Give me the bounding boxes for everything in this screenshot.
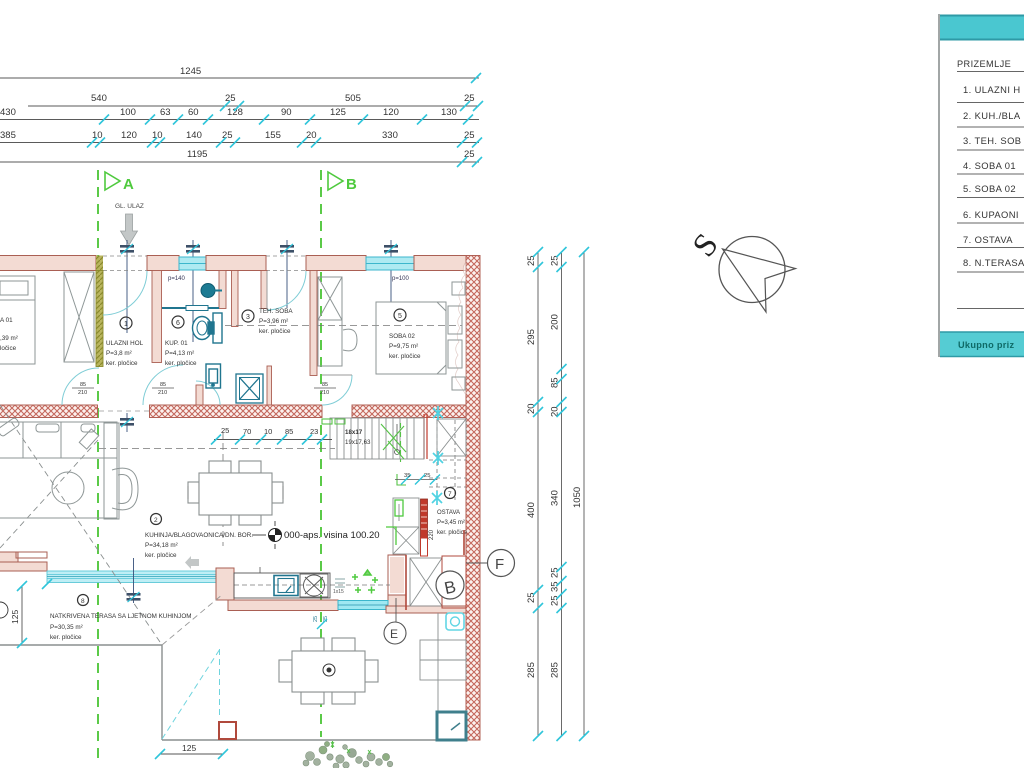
legend table left border (938, 14, 940, 357)
desk chair (112, 468, 138, 510)
shower tray edge (162, 307, 219, 309)
svg-text:330: 330 (382, 130, 398, 141)
entrance door arc (103, 271, 147, 315)
dim labels row1 (0, 66, 475, 160)
svg-text:210: 210 (158, 390, 167, 396)
svg-text:90: 90 (281, 107, 292, 118)
soba01 text fragments (0, 317, 18, 352)
legend title PRIZEMLJE (957, 59, 1024, 309)
red walls around ostava area (406, 530, 466, 610)
svg-text:5: 5 (398, 313, 402, 320)
teh soba top door arc (267, 271, 306, 310)
wardrobe soba01 with X (64, 272, 94, 362)
svg-text:p=100: p=100 (392, 276, 410, 282)
svg-text:85: 85 (160, 382, 166, 388)
svg-text:10: 10 (152, 130, 163, 141)
svg-text:125: 125 (182, 743, 196, 753)
hol/kup wall (152, 271, 162, 363)
svg-text:ker. pločice: ker. pločice (50, 634, 82, 641)
svg-text:P=3,45 m²: P=3,45 m² (437, 520, 465, 526)
living room rug outline (0, 422, 117, 518)
teh soba right wall upper (261, 271, 267, 309)
armchair rotated (79, 429, 98, 449)
dim line 1195-25 (0, 161, 479, 163)
svg-text:295: 295 (526, 329, 537, 345)
soba02 left wall (310, 271, 317, 376)
washbasin (201, 284, 215, 298)
GL. ULAZ label + arrow (115, 203, 144, 245)
kitchen south window (338, 601, 388, 610)
svg-text:P=9,75 m²: P=9,75 m² (389, 343, 418, 350)
compass circle (719, 237, 785, 303)
svg-text:5. SOBA 02: 5. SOBA 02 (963, 183, 1016, 194)
svg-text:7. OSTAVA: 7. OSTAVA (963, 234, 1013, 245)
terrace table (279, 638, 378, 704)
svg-text:ULAZNI HOL: ULAZNI HOL (106, 340, 144, 347)
soba01 top wall (0, 256, 96, 271)
svg-text:8. N.TERASA: 8. N.TERASA (963, 257, 1024, 268)
svg-text:PRIZEMLJE: PRIZEMLJE (957, 59, 1011, 69)
stair side red wall (424, 414, 427, 459)
desk along A line (104, 423, 119, 519)
svg-text:25: 25 (225, 93, 236, 104)
kup lower wall sliver (196, 385, 203, 406)
shower / machine box with X (236, 374, 263, 403)
dim line 1245 (0, 77, 479, 79)
svg-text:20: 20 (306, 130, 317, 141)
gray arrow left near glazing (185, 556, 199, 569)
svg-text:10: 10 (264, 427, 272, 436)
svg-text:70: 70 (243, 427, 251, 436)
sink (274, 576, 298, 596)
corner wall piece at x216 going down to kitchen line (216, 568, 234, 600)
teh soba left wall (232, 271, 239, 327)
svg-text:25: 25 (323, 616, 329, 622)
svg-text:63: 63 (160, 107, 171, 118)
washing machine (206, 364, 221, 388)
svg-text:140: 140 (186, 130, 202, 141)
circle E + leader (395, 598, 397, 622)
svg-text:F: F (495, 556, 504, 573)
svg-text:19x17,63: 19x17,63 (345, 439, 371, 446)
svg-text:505: 505 (345, 93, 361, 104)
stove (300, 574, 328, 597)
dim line 385..25 (0, 142, 479, 144)
svg-text:1. ULAZNI H: 1. ULAZNI H (963, 84, 1021, 95)
svg-text:ker. pločice: ker. pločice (145, 552, 177, 559)
svg-text:285: 285 (526, 662, 537, 678)
svg-text:Ukupno priz: Ukupno priz (958, 340, 1014, 350)
kitchen counter dashed axis (234, 584, 390, 586)
svg-text:10: 10 (92, 130, 103, 141)
wall piece (306, 256, 366, 271)
svg-text:ker. pločice: ker. pločice (389, 353, 421, 360)
kup right wall upper (219, 271, 226, 309)
svg-text:KUHINJA/BLAGOVAONICA/DN. BOR.: KUHINJA/BLAGOVAONICA/DN. BOR. (145, 532, 253, 539)
svg-text:1: 1 (124, 321, 128, 328)
room circle 1 (120, 317, 132, 329)
svg-text:000-aps. visina 100.20: 000-aps. visina 100.20 (284, 530, 380, 541)
svg-text:P=30,35 m²: P=30,35 m² (50, 624, 83, 631)
terrace roof dashed lines (162, 594, 223, 645)
teal box bottom right (bbq) (437, 712, 466, 740)
dim 35/25 (395, 479, 437, 481)
svg-text:ker. pločice: ker. pločice (165, 360, 197, 367)
svg-text:GL. ULAZ: GL. ULAZ (115, 203, 144, 210)
tag below entrance inside plan (120, 413, 134, 432)
svg-text:340: 340 (550, 490, 561, 506)
svg-text:385: 385 (0, 130, 16, 141)
round coffee table (52, 472, 84, 504)
boiler symbol cyan (446, 613, 464, 630)
circle F + leader (466, 562, 487, 564)
chimney dark red (421, 499, 428, 538)
sofa along top of living room (0, 417, 117, 458)
soba02 door arc (322, 375, 352, 405)
green plant marks on counter (352, 570, 378, 594)
dim line 430..130 (0, 119, 479, 121)
soba01 bottom door arc (62, 368, 99, 405)
svg-text:100: 100 (120, 107, 136, 118)
svg-text:23: 23 (310, 427, 318, 436)
svg-text:6: 6 (176, 320, 180, 327)
left 125 dim (21, 586, 23, 643)
wardrobe + desk left wall (318, 277, 357, 366)
window SOBA02 p=100 (366, 257, 414, 270)
kitchen south wall (228, 595, 406, 611)
hol-kup top wall piece (147, 256, 179, 271)
svg-text:A 01: A 01 (0, 317, 13, 324)
cyan ticks top dims (87, 73, 483, 167)
svg-text:120: 120 (121, 130, 137, 141)
bottom 125 dim (160, 753, 223, 755)
teh soba right wall lower (267, 366, 272, 405)
kitchen dim line 25-70-10-85-23 (214, 439, 332, 441)
red column on terrace (219, 722, 236, 739)
svg-text:SOBA 02: SOBA 02 (389, 333, 415, 340)
summer kitchen room counters (420, 613, 466, 712)
svg-text:1195: 1195 (187, 149, 207, 160)
section line A (98, 170, 134, 762)
legend header cyan band (940, 16, 1024, 40)
dashed axes in rooms (225, 325, 310, 327)
svg-text:3: 3 (246, 314, 250, 321)
terrace glazing band (47, 571, 219, 583)
legend footer cyan band Ukupno (940, 332, 1024, 357)
svg-text:2. KUH./BLA: 2. KUH./BLA (963, 110, 1021, 121)
svg-text:2: 2 (154, 517, 158, 524)
svg-text:125: 125 (330, 107, 346, 118)
living room roof dashed diagonals (0, 440, 98, 548)
bed soba01 (0, 276, 35, 364)
svg-text:3. TEH. SOB: 3. TEH. SOB (963, 135, 1021, 146)
svg-text:128: 128 (227, 107, 243, 118)
ostava closet with X (410, 558, 442, 606)
kitchen/ostava divider wall vertical (388, 555, 406, 595)
green marks on stairs (322, 419, 406, 485)
benchmark symbol + label (252, 521, 282, 549)
svg-text:1x15: 1x15 (333, 589, 344, 595)
svg-text:P=3,8 m²: P=3,8 m² (106, 350, 132, 357)
kup bottom door arc (196, 381, 220, 405)
svg-text:400: 400 (526, 502, 537, 518)
dim line 540-25-505-25 (28, 105, 479, 107)
window KUP p=140 (179, 257, 206, 270)
section line B (321, 170, 357, 737)
svg-text:1050: 1050 (572, 487, 583, 508)
85/210 labels (78, 382, 329, 396)
svg-text:85: 85 (80, 382, 86, 388)
table axis dashed vertical (222, 432, 224, 546)
svg-text:E: E (390, 627, 398, 641)
svg-text:200: 200 (550, 314, 561, 330)
svg-text:A: A (123, 176, 134, 193)
dashed kitchen axis marks (259, 567, 261, 573)
svg-text:ker. pločice: ker. pločice (106, 360, 138, 367)
svg-text:430: 430 (0, 107, 16, 118)
svg-text:60: 60 (188, 107, 199, 118)
svg-text:130: 130 (441, 107, 457, 118)
closet X top right corridor (437, 419, 466, 456)
svg-text:ker. pločice: ker. pločice (259, 328, 291, 335)
wall piece kup-teh (206, 256, 266, 271)
svg-text:p=140: p=140 (168, 276, 186, 282)
OSTAVA bottom wall (386, 606, 466, 613)
svg-text:85: 85 (285, 427, 293, 436)
svg-text:35: 35 (404, 473, 410, 479)
svg-text:,39 m²: ,39 m² (0, 335, 18, 342)
west wall chunk at living room left (0, 552, 47, 571)
svg-text:OSTAVA: OSTAVA (437, 510, 460, 516)
green accents near unit (386, 500, 403, 545)
bed soba02 (376, 282, 465, 390)
svg-text:540: 540 (91, 93, 107, 104)
teh.soba door opening dashes (266, 256, 306, 271)
svg-text:210: 210 (320, 390, 329, 396)
stair direction (395, 450, 400, 455)
svg-text:25: 25 (313, 616, 319, 622)
svg-text:85: 85 (322, 382, 328, 388)
olive wall strip (soba01/hol divider crossing) (96, 256, 103, 271)
wall piece to corner (414, 256, 466, 271)
svg-text:KUP. 01: KUP. 01 (165, 340, 188, 347)
svg-text:P=34,18 m²: P=34,18 m² (145, 542, 178, 549)
svg-text:125: 125 (10, 610, 20, 624)
toilet (193, 313, 223, 343)
svg-text:NATKRIVENA TERASA SA LJETNOM K: NATKRIVENA TERASA SA LJETNOM KUHINJOM (50, 613, 191, 620)
half circle label at left edge (0, 602, 8, 618)
svg-text:18x17: 18x17 (345, 429, 363, 436)
svg-text:120: 120 (383, 107, 399, 118)
circle B section mark (436, 571, 464, 599)
svg-text:ker. pločice: ker. pločice (437, 530, 468, 536)
big cyan star marks (432, 406, 443, 505)
axis tag at living glazing (127, 558, 141, 603)
svg-text:285: 285 (550, 662, 561, 678)
svg-text:25: 25 (550, 255, 561, 266)
entrance opening dashed edges (103, 256, 147, 271)
svg-text:6. KUPAONI: 6. KUPAONI (963, 209, 1019, 220)
svg-text:25: 25 (424, 473, 430, 479)
svg-text:1245: 1245 (180, 66, 201, 77)
25/25 small dim at B line (313, 616, 329, 622)
svg-text:4. SOBA 01: 4. SOBA 01 (963, 160, 1016, 171)
svg-text:TEH. SOBA: TEH. SOBA (259, 308, 293, 315)
svg-text:7: 7 (448, 491, 452, 498)
svg-text:P=3,96 m²: P=3,96 m² (259, 318, 288, 325)
svg-text:8: 8 (81, 598, 85, 605)
svg-text:220: 220 (429, 529, 435, 540)
svg-text:B: B (346, 176, 357, 193)
long horizontal dashed axis through living area (99, 448, 335, 450)
compass needle arrow (723, 249, 796, 312)
hol bottom door arc (143, 365, 183, 405)
corridor dashes right of stairs (429, 420, 466, 500)
svg-text:P=4,13 m²: P=4,13 m² (165, 350, 194, 357)
svg-text:155: 155 (265, 130, 281, 141)
svg-text:210: 210 (78, 390, 87, 396)
svg-text:25: 25 (526, 255, 537, 266)
svg-text:ločice: ločice (0, 345, 17, 352)
svg-text:25: 25 (526, 592, 537, 603)
olive wall soba01/hol (96, 271, 103, 367)
kitchen tall unit boxes (393, 498, 419, 554)
svg-text:25: 25 (221, 426, 229, 435)
